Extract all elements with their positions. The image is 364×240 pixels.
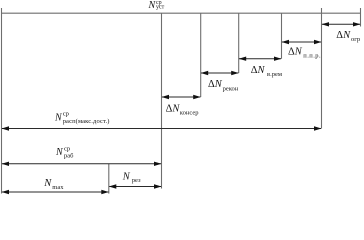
- vertical at x=321.5: [321, 8, 323, 129]
- svg-text:раб: раб: [64, 152, 74, 159]
- svg-text:N: N: [55, 147, 64, 158]
- svg-text:ΔN: ΔN: [336, 30, 351, 41]
- top line N_уст: [2, 12, 361, 14]
- vertical at x=281.5: [281, 13, 283, 59]
- label ΔN_огр: [336, 30, 360, 43]
- label ΔN_в.рем: [251, 65, 282, 78]
- svg-text:ΔN: ΔN: [166, 103, 181, 114]
- arrow N_рез: [109, 184, 162, 188]
- svg-text:ср: ср: [64, 145, 70, 152]
- arrow N_раб: [2, 162, 162, 166]
- label N_рез: [122, 172, 141, 185]
- label ΔN_п.п.р.: [288, 46, 321, 59]
- arrow N_расп: [2, 126, 322, 130]
- svg-text:консер: консер: [180, 110, 199, 117]
- svg-text:ΔN: ΔN: [251, 65, 266, 76]
- svg-text:N: N: [54, 112, 63, 123]
- label N_max: [43, 178, 64, 191]
- svg-text:уст: уст: [156, 4, 165, 10]
- svg-text:огр: огр: [351, 36, 360, 43]
- arrow ΔN_п.п.р.: [282, 40, 322, 44]
- svg-text:N: N: [43, 178, 52, 189]
- vertical at x=238.7: [238, 13, 240, 73]
- arrow N_max: [2, 190, 109, 194]
- svg-text:п.п.р.: п.п.р.: [303, 53, 321, 60]
- label ΔN_консер: [166, 103, 199, 116]
- vertical left edge: [1, 8, 3, 194]
- label N_уст^ср: [148, 0, 165, 11]
- arrow ΔN_огр: [322, 22, 361, 26]
- vertical right edge x=360.5: [360, 8, 362, 27]
- label N_раб^ср: [55, 145, 74, 159]
- svg-text:рекон: рекон: [223, 85, 239, 92]
- vertical at x=161.5: [161, 13, 163, 188]
- label N_расп(макс.дост.)^ср: [54, 111, 109, 126]
- arrow ΔN_рекон: [201, 71, 239, 75]
- svg-text:ΔN: ΔN: [288, 46, 303, 57]
- label ΔN_рекон: [208, 79, 239, 92]
- svg-text:рез: рез: [132, 177, 141, 184]
- svg-text:ΔN: ΔN: [208, 79, 223, 90]
- vertical at x=108.8: [108, 164, 110, 194]
- arrow ΔN_консер: [162, 95, 201, 99]
- arrow ΔN_в.рем: [239, 57, 282, 61]
- svg-text:N: N: [122, 172, 131, 183]
- svg-text:расп(макс.дост.): расп(макс.дост.): [63, 118, 110, 125]
- svg-text:max: max: [52, 184, 64, 191]
- svg-text:в.рем: в.рем: [267, 71, 282, 78]
- vertical at x=200.7: [200, 13, 202, 97]
- svg-text:ср: ср: [63, 111, 69, 118]
